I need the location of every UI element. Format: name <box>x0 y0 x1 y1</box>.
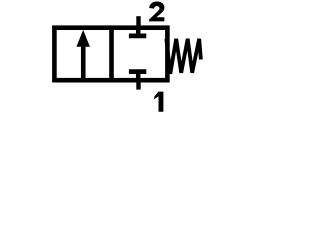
spring (return spring, right side) <box>166 39 201 74</box>
port label 1 <box>154 92 163 112</box>
blocked port T crossbar (bottom) <box>129 69 146 74</box>
blocked port T stem (top, right position) <box>136 29 141 35</box>
arrow head <box>76 30 90 47</box>
blocked port T stem (bottom, right position) <box>136 74 141 80</box>
arrow (flow path, left position) shaft <box>81 45 86 80</box>
wire: middle divider between the two positions <box>109 28 114 80</box>
valve body outline (two position boxes) <box>54 28 167 80</box>
wire: port 1 stub <box>136 80 140 89</box>
blocked port T crossbar (top) <box>129 34 146 39</box>
wire: port 2 stub <box>136 16 140 28</box>
port label 2 <box>149 2 164 22</box>
